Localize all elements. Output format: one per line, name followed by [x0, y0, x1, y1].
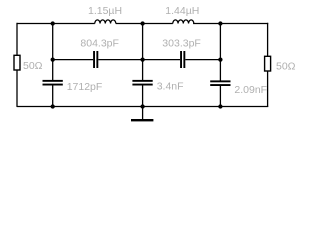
capacitor C4 shunt plates (3.4nF)	[132, 80, 152, 86]
capacitor C5 shunt plates (2.09nF)	[210, 80, 230, 86]
wire: middle horizontal segment C	[185, 59, 220, 61]
wire: top horizontal, left segment	[17, 23, 95, 25]
wire: vertical branch 2 upper	[142, 23, 144, 80]
wire: left vertical upper	[16, 23, 18, 56]
junction node A bottom	[51, 104, 55, 108]
junction node C middle	[218, 57, 222, 61]
capacitor C3 shunt plates (1712pF)	[43, 80, 63, 86]
wire: top horizontal, middle segment	[116, 23, 173, 25]
svg-text:804.3pF: 804.3pF	[80, 37, 119, 49]
wire: vertical branch 3 upper	[219, 23, 221, 81]
wire: vertical branch 3 lower	[219, 86, 221, 107]
wire: middle horizontal segment A	[53, 59, 93, 61]
svg-text:1712pF: 1712pF	[67, 81, 103, 93]
inductor L2 coil	[173, 20, 194, 24]
wire: bottom horizontal	[17, 106, 268, 108]
inductor L1 coil	[95, 20, 116, 24]
resistor R2 body	[265, 56, 271, 71]
svg-text:1.15µH: 1.15µH	[88, 5, 122, 17]
junction node C bottom	[218, 104, 222, 108]
junction node B bottom	[140, 104, 144, 108]
wire: middle horizontal segment B	[98, 59, 180, 61]
svg-text:303.3pF: 303.3pF	[162, 37, 201, 49]
capacitor C1 series plates (804.3pF)	[93, 51, 98, 68]
capacitor C2 series plates (303.3pF)	[180, 51, 185, 68]
svg-text:3.4nF: 3.4nF	[157, 81, 184, 93]
svg-text:50Ω: 50Ω	[276, 61, 296, 73]
junction node C top	[218, 21, 222, 25]
svg-text:2.09nF: 2.09nF	[234, 84, 267, 96]
wire: vertical branch 1 lower	[52, 86, 54, 107]
wire: vertical branch 1 upper	[52, 23, 54, 80]
junction node A top	[51, 21, 55, 25]
junction node A middle	[51, 57, 55, 61]
wire: right vertical upper	[267, 23, 269, 57]
ground	[131, 119, 153, 121]
junction node B top	[140, 21, 144, 25]
svg-text:1.44µH: 1.44µH	[165, 5, 199, 17]
wire: top horizontal, right segment	[193, 23, 268, 25]
wire: vertical branch 2 lower (to ground)	[142, 86, 144, 120]
svg-text:50Ω: 50Ω	[23, 60, 43, 72]
resistor R1 body	[14, 55, 20, 70]
wire: right vertical lower	[267, 71, 269, 107]
wire: left vertical lower	[16, 70, 18, 107]
junction node B middle	[140, 57, 144, 61]
